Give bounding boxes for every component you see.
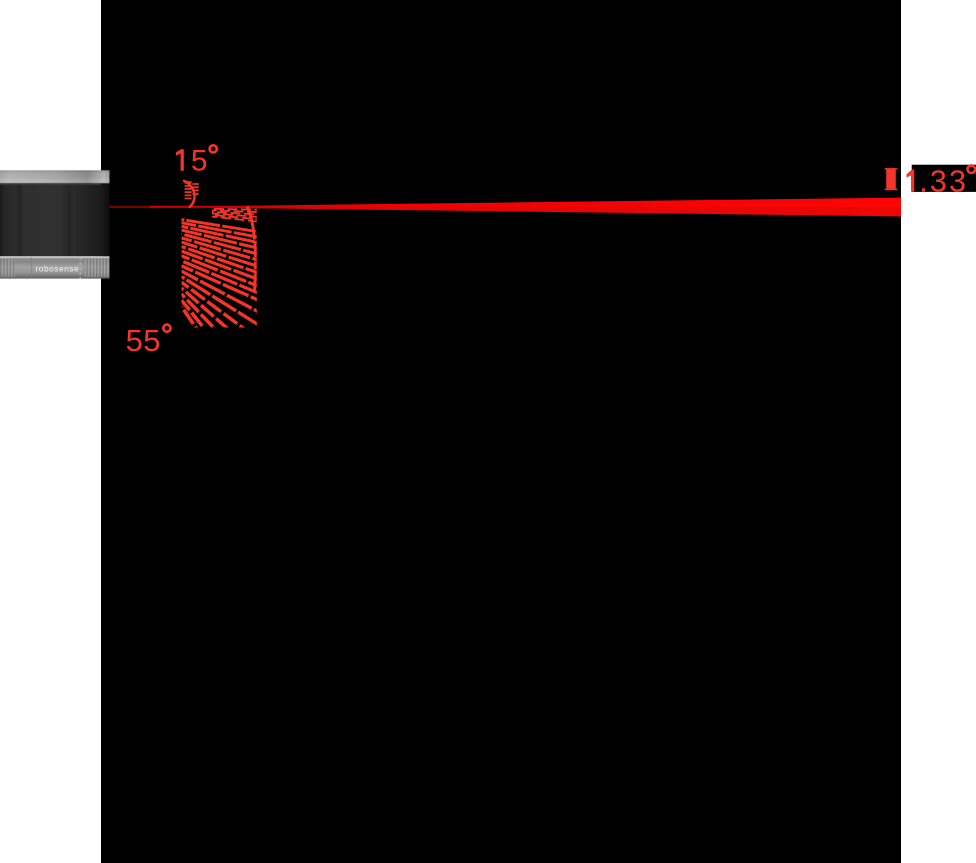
lidar sensor: top cap: [0, 170, 110, 183]
downward beam stripes 10..55 deg: [182, 220, 259, 419]
svg-text:.33: .33: [919, 164, 968, 198]
shallow downward beams near horizontal: [212, 209, 258, 222]
svg-text:55: 55: [126, 323, 161, 358]
15 deg label: digit 1 (custom glyph): [176, 149, 184, 171]
15 deg label: degree ring: [210, 145, 217, 152]
1.33 deg label: degree ring: [968, 165, 976, 173]
lower 55-deg hatched fan block: [182, 207, 259, 419]
lidar sensor: dark cylindrical body: [0, 185, 110, 257]
lidar sensor: silver base: [0, 256, 110, 278]
main beam wedge (1.33 deg divergence): [152, 198, 901, 217]
1.33 deg label box: [912, 165, 976, 192]
1.33 deg label: digit 1 (custom glyph): [907, 170, 915, 192]
thin 0-deg beam line: [104, 206, 901, 208]
upper 15-deg fan dashes: [185, 181, 199, 199]
lidar sensor: cap/body separator: [0, 183, 110, 184]
svg-text:5: 5: [191, 145, 208, 178]
upper 15-deg fan arc: [184, 181, 194, 207]
wedge lower-half tone: [152, 207, 901, 216]
dimension arc inside block: [247, 207, 255, 291]
55 deg label: degree ring: [163, 325, 170, 332]
1.33 deg dimension marker: [885, 168, 898, 190]
svg-text:robosense: robosense: [36, 263, 80, 273]
